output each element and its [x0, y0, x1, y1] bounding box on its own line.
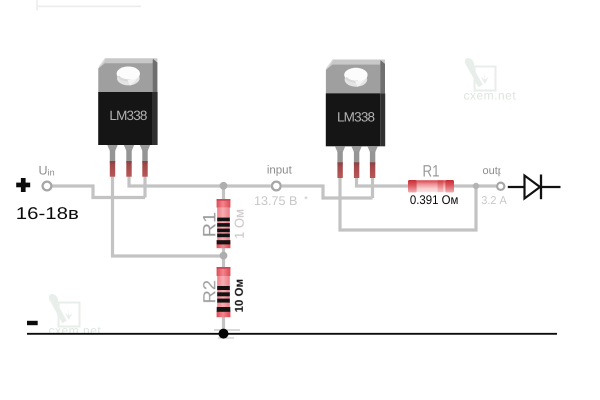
ground junction dot [219, 329, 229, 339]
resistor R1 horizontal 0.391 Om [408, 180, 454, 193]
tiny plus mark [305, 196, 308, 199]
wire Uin terminal to U1 pin3 (VIN) [53, 186, 146, 198]
crop leftover line horizontal [37, 5, 142, 7]
crop leftover line vertical [36, 0, 38, 11]
wire R1h right to output terminal [453, 184, 496, 187]
svg-text:cxem.net: cxem.net [464, 89, 517, 103]
svg-text:0.391 Ом: 0.391 Ом [410, 193, 459, 207]
ground rail minus [27, 333, 557, 335]
wire U1 pin2 (VOUT) rail to input terminal [129, 168, 271, 186]
wire R1 top lead [222, 186, 225, 202]
svg-text:R2: R2 [200, 280, 220, 304]
wire U2 pin1 (ADJ) loop to R1h right junction [340, 169, 476, 230]
svg-text:cxem.net: cxem.net [49, 324, 102, 338]
label Uin [39, 163, 55, 177]
wire U1 pin1 (ADJ) down to divider junction [113, 168, 223, 256]
svg-text:R1: R1 [423, 163, 440, 181]
regulator U1 LM338 [98, 58, 157, 177]
regulator U2 LM338 [326, 60, 385, 179]
svg-text:input: input [267, 164, 293, 176]
plus sign [16, 178, 30, 192]
wire R2 bottom lead to ground [222, 315, 225, 334]
wire U2 pin3 leg extension [371, 169, 374, 198]
resistor R1 vertical 1 Om [217, 199, 231, 248]
svg-text:R1: R1 [200, 212, 220, 238]
watermark cxem.net top right [463, 56, 516, 102]
diode VD1 [508, 175, 561, 200]
svg-text:10 Ом: 10 Ом [234, 279, 246, 312]
junction dot R1h right [473, 183, 479, 189]
svg-text:U: U [39, 163, 48, 177]
svg-text:in: in [48, 167, 55, 177]
svg-text:16-18в: 16-18в [16, 204, 79, 223]
svg-text:13.75 В: 13.75 В [254, 194, 297, 208]
watermark cxem.net bottom left [47, 292, 101, 337]
wire R1 bottom lead / R2 top lead [222, 246, 225, 269]
terminal output [497, 183, 504, 190]
resistor R2 vertical 10 Om [217, 267, 231, 317]
junction dot divider [220, 252, 228, 260]
terminal input [272, 182, 281, 191]
svg-text:1 Ом: 1 Ом [232, 209, 247, 239]
minus sign [27, 321, 38, 325]
wire input terminal to U2 pin3 (VIN) [282, 186, 373, 198]
wire U1 pin3 leg extension [143, 168, 146, 198]
svg-text:3.2 А: 3.2 А [481, 195, 507, 207]
ground mark faint behind dot [214, 330, 240, 338]
wire U2 pin2 (VOUT) rail to R1h [357, 169, 409, 186]
junction dot rail/R1 top [220, 182, 228, 190]
terminal + Uin [43, 182, 52, 191]
